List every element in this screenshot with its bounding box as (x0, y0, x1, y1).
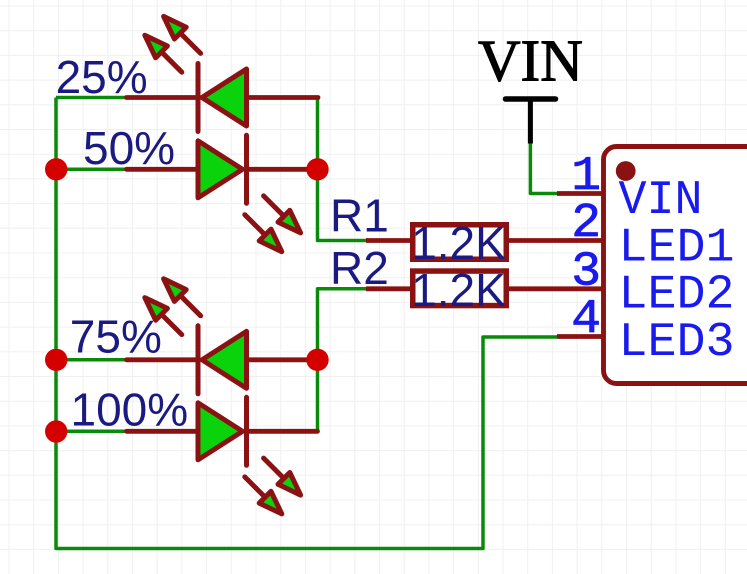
svg-text:25%: 25% (56, 51, 148, 103)
svg-text:50%: 50% (83, 122, 175, 174)
svg-text:1.2K: 1.2K (411, 264, 506, 316)
svg-text:R2: R2 (330, 242, 389, 294)
svg-text:4: 4 (571, 291, 601, 347)
svg-text:LED3: LED3 (619, 314, 735, 370)
svg-text:100%: 100% (71, 384, 189, 436)
svg-text:2: 2 (571, 195, 601, 251)
svg-text:VIN: VIN (478, 28, 583, 94)
svg-text:R1: R1 (330, 190, 389, 242)
svg-text:75%: 75% (70, 311, 162, 363)
svg-text:1.2K: 1.2K (411, 217, 506, 269)
